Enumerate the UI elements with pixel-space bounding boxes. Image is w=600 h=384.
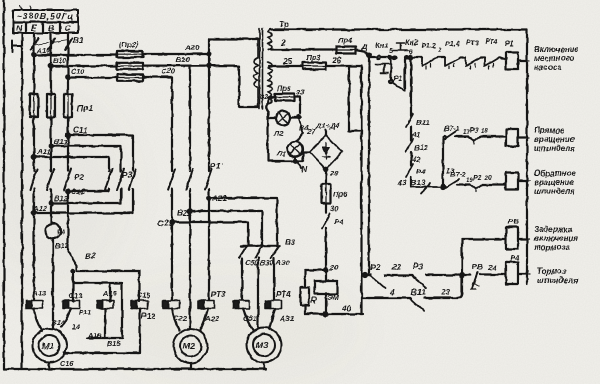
wire P3 out to B12 (51, 189, 121, 203)
fuse Pr2 phase A (117, 51, 143, 58)
wire coil P2 to rail (518, 136, 527, 138)
wire C51 into M3 (243, 309, 253, 331)
fuse Pr5 (275, 94, 294, 101)
bus A from wire 26 (360, 66, 362, 314)
wire 40 (305, 313, 363, 315)
svg-text:С20: С20 (161, 67, 176, 76)
wire lower branch 4 (362, 297, 412, 299)
wire A30 drop (273, 258, 275, 300)
node B12 (49, 201, 53, 205)
node at 73,271 (71, 269, 74, 272)
svg-text:В15: В15 (107, 339, 121, 348)
svg-text:В12: В12 (55, 241, 70, 250)
motor M1 (33, 329, 67, 363)
svg-text:В11: В11 (411, 288, 426, 297)
svg-text:Р3: Р3 (413, 262, 423, 271)
contact PB timed (462, 272, 497, 289)
wire phase C mid (67, 117, 69, 250)
wire A15 stub (104, 309, 106, 339)
fuse Pr6 (322, 184, 331, 203)
contact P1.4 NC (445, 58, 461, 70)
wire P3 out to C12 (68, 189, 109, 191)
svg-text:А11: А11 (36, 147, 50, 156)
svg-text:РА: РА (57, 230, 65, 236)
node B11 (49, 144, 53, 148)
svg-text:41: 41 (411, 130, 420, 139)
fuse Pr3 (303, 63, 326, 70)
contact P3 NO chevron 17-18 (468, 137, 480, 145)
ammeter PA (46, 224, 61, 239)
svg-text:А10: А10 (36, 46, 50, 55)
wire secondary1 top to right rail (270, 28, 527, 30)
switch B2 (68, 251, 77, 266)
svg-text:местного: местного (534, 54, 575, 63)
border frame left (3, 0, 5, 369)
svg-text:С15: С15 (137, 291, 151, 300)
wire 42 (410, 152, 412, 165)
svg-text:А12: А12 (32, 204, 48, 213)
svg-text:23: 23 (440, 288, 451, 297)
contactor P2 contact A (30, 169, 37, 190)
contact P4 NC (406, 164, 413, 177)
contact P2 NO (371, 276, 385, 288)
fuse Pr2 phase B (117, 63, 143, 70)
wire B2 run (77, 266, 139, 271)
contact P3 NO (412, 276, 426, 288)
svg-text:С21: С21 (158, 219, 173, 228)
node B20 (207, 64, 211, 68)
svg-text:М3: М3 (256, 340, 268, 350)
motor M3 (247, 328, 282, 363)
svg-text:Р12: Р12 (141, 312, 156, 321)
resistor R (301, 287, 310, 305)
svg-text:Р2: Р2 (74, 173, 84, 182)
wire A13 into M1 (34, 309, 42, 332)
wire A31 into M3 (269, 309, 275, 330)
wire C50 drop (241, 258, 243, 300)
contact P2 NO chevron 19-20 (470, 185, 482, 193)
wire phase B top (50, 33, 52, 94)
node A20 (207, 52, 211, 56)
wire seg (481, 56, 485, 58)
rectifier bridge D1-D4 (310, 135, 342, 169)
wire 25 (269, 65, 303, 67)
button Kn2 NO (393, 43, 408, 59)
contact C15 / RT2 (131, 301, 148, 309)
svg-text:Пр1: Пр1 (77, 103, 93, 113)
wire node 13 up (442, 139, 444, 187)
contact B7-1 (443, 131, 468, 140)
svg-text:Р1.2: Р1.2 (421, 41, 436, 50)
wire 26 jog to bridge (349, 66, 362, 131)
svg-text:С16: С16 (60, 359, 74, 368)
wire seg (438, 56, 445, 58)
wire column A to M2 (208, 54, 210, 300)
wire L2 stubs (269, 117, 299, 119)
svg-text:Л2: Л2 (273, 129, 284, 138)
svg-text:В2: В2 (85, 252, 96, 261)
wire A20 (143, 53, 209, 55)
svg-text:Р3: Р3 (470, 125, 479, 134)
wire C20 (143, 76, 172, 78)
bus from node 6 down (410, 59, 412, 116)
svg-text:С22: С22 (173, 314, 188, 323)
svg-text:(Пр2): (Пр2) (119, 40, 139, 49)
svg-text:А20: А20 (184, 43, 200, 52)
svg-text:С11: С11 (73, 126, 88, 135)
svg-text:вращение: вращение (534, 178, 575, 187)
wire B20 (143, 64, 209, 66)
node C12 (66, 189, 70, 193)
wire transformer primary top (209, 39, 259, 54)
wire branch box M1 (73, 271, 122, 338)
fuse Pr4 (336, 47, 356, 54)
svg-text:В21: В21 (177, 209, 192, 218)
contact A13 (26, 301, 43, 309)
contact A22 / RT3 (198, 301, 215, 309)
wire to coil P3 (482, 183, 506, 185)
node A12 (32, 211, 36, 215)
wire M2 to neutral (189, 363, 191, 369)
button Kn1 NC (376, 56, 392, 73)
switch B1 (31, 38, 72, 50)
node C11 (66, 133, 70, 137)
svg-text:22: 22 (391, 263, 402, 272)
svg-text:А31: А31 (279, 314, 294, 323)
wire bridge top stub (325, 130, 327, 135)
wire 2 (270, 48, 336, 50)
wire to coil P1 (499, 58, 506, 61)
svg-text:40: 40 (341, 304, 352, 313)
svg-text:С: С (65, 23, 72, 33)
scan smudges (0, 90, 360, 384)
svg-text:насоса: насоса (534, 63, 562, 72)
wire column B to M2 (189, 66, 191, 329)
contactor P3 contact 2 (117, 169, 124, 190)
svg-text:Р1: Р1 (505, 39, 514, 48)
svg-text:27: 27 (306, 127, 316, 136)
svg-text:М2: М2 (183, 341, 195, 351)
svg-text:В14: В14 (51, 318, 64, 327)
wire 22 (385, 274, 412, 276)
svg-text:РТ4: РТ4 (485, 37, 498, 46)
wire 33 drop (294, 97, 300, 113)
wire phase B mid (50, 117, 52, 224)
contact B11 NO lower (411, 299, 424, 311)
wire seg (461, 56, 466, 58)
contact B12 NC (406, 139, 413, 152)
svg-text:В13: В13 (411, 178, 426, 187)
wire to coil P2 (480, 135, 506, 137)
svg-text:А16: А16 (87, 331, 102, 340)
svg-text:30: 30 (330, 204, 339, 213)
svg-text:Задержка: Задержка (534, 225, 573, 234)
fuse Pr1 phase B (47, 94, 55, 117)
coil P4 brake (506, 262, 518, 284)
wire to node 24 (426, 274, 462, 276)
svg-text:А22: А22 (204, 314, 220, 323)
contactor P1 contact B (186, 169, 193, 190)
wire coil P3 to rail (518, 180, 527, 182)
contact C22 / RT3 (163, 301, 180, 309)
svg-text:Р3): Р3) (122, 171, 135, 180)
node C21 (170, 220, 174, 224)
lamp L2 (276, 111, 290, 125)
switch B4 (299, 119, 303, 133)
wire R bottom (304, 305, 306, 314)
node N (293, 159, 297, 163)
svg-text:Д: Д (361, 42, 368, 51)
contact P1.2 NC (422, 58, 438, 70)
coil P2 (506, 129, 518, 146)
coil PB time relay (506, 227, 518, 249)
svg-text:РТ3: РТ3 (466, 38, 479, 47)
svg-text:РТ4: РТ4 (276, 290, 291, 299)
input terminal box 380V 50Hz (13, 6, 78, 33)
wire C13 into M1 (61, 309, 71, 328)
svg-text:В1: В1 (73, 36, 84, 45)
svg-text:14: 14 (72, 322, 80, 331)
node B21 (188, 209, 192, 213)
contact A31 / RT4 (265, 301, 282, 309)
svg-text:С51: С51 (243, 314, 257, 323)
svg-text:В: В (48, 23, 54, 33)
switch B3 bar (241, 245, 279, 247)
fuse Pr1 phase C (64, 94, 72, 117)
svg-text:С10: С10 (71, 67, 84, 76)
svg-text:С50: С50 (245, 258, 258, 267)
wire coil PB left (462, 239, 506, 275)
svg-text:26: 26 (331, 55, 342, 65)
wire 41 (410, 127, 412, 140)
svg-text:В30: В30 (260, 258, 273, 267)
svg-text:С12: С12 (71, 187, 86, 196)
node A21 (207, 196, 211, 200)
wire A22 into M2 (200, 309, 208, 331)
coil P1 (506, 52, 518, 69)
svg-text:18: 18 (481, 129, 488, 135)
svg-text:28: 28 (329, 169, 339, 178)
svg-text:С13: С13 (69, 291, 82, 300)
motor M2 (174, 329, 208, 363)
node B10 (49, 64, 53, 68)
wire B4 to L1 (297, 133, 303, 142)
svg-text:тормоза: тормоза (534, 243, 571, 252)
svg-text:М1: М1 (42, 341, 54, 351)
wire P3 out to A12 (34, 189, 133, 213)
node 20 (324, 268, 328, 272)
contact B11 NC (406, 114, 413, 127)
bus B from node D (368, 55, 370, 275)
svg-text:Р1.4: Р1.4 (445, 39, 460, 48)
wire 6 (406, 56, 422, 58)
svg-text:Кн2: Кн2 (405, 38, 419, 47)
wire C15 to motor M1 (64, 309, 140, 354)
node 6 (409, 56, 413, 60)
wire coil PB to rail (518, 238, 527, 240)
svg-text:42: 42 (411, 155, 421, 164)
wire to node 20 (325, 228, 327, 270)
transformer secondary winding 1 (268, 30, 272, 51)
svg-text:Обратное: Обратное (534, 169, 576, 178)
svg-text:2: 2 (280, 38, 286, 48)
svg-text:В12: В12 (414, 143, 429, 152)
wire bridge left vertex to N rail (303, 152, 310, 161)
svg-text:шпинделя: шпинделя (534, 144, 575, 153)
svg-text:А15: А15 (102, 289, 117, 298)
transformer Tr core (260, 28, 263, 109)
wire coil P1 to rail (518, 59, 527, 61)
contactor P3 contact 3 (129, 169, 136, 190)
contact P1 self-hold (390, 59, 406, 90)
svg-text:шпинделя: шпинделя (534, 187, 575, 196)
wire N (21, 33, 23, 369)
wire C21 to B3 (172, 222, 248, 246)
svg-text:Р11: Р11 (79, 308, 91, 317)
wire 30 (325, 203, 327, 213)
contact A15 (97, 301, 114, 309)
svg-text:Л1: Л1 (276, 149, 286, 158)
fuse Pr2 phase C (117, 74, 143, 81)
contact C51 / RT4 (233, 301, 250, 309)
svg-text:Тормоз: Тормоз (537, 267, 566, 276)
svg-text:Р1ʾ: Р1ʾ (210, 161, 224, 171)
node 40 (324, 312, 328, 316)
svg-text:Р4: Р4 (334, 217, 344, 226)
wire L1 bottom (294, 157, 296, 162)
wire B21 to B3 (190, 211, 262, 246)
transformer Tr primary winding (254, 39, 258, 107)
contactor P2 contact B (47, 169, 54, 190)
svg-text:Прямое: Прямое (534, 126, 565, 135)
wire bottom neutral bus (4, 368, 266, 370)
svg-text:А21: А21 (211, 194, 227, 203)
svg-text:N: N (16, 23, 23, 33)
svg-text:Пр6: Пр6 (333, 190, 348, 199)
svg-text:N: N (301, 164, 308, 174)
wire M1 to neutral (48, 363, 50, 370)
svg-text:вращение: вращение (534, 135, 575, 144)
wire control top (369, 56, 377, 58)
coil P3 (506, 173, 518, 190)
svg-text:Р4: Р4 (510, 253, 520, 262)
node 24 junction (460, 273, 464, 277)
wire B10 to fuse (51, 65, 117, 67)
wire A10 to fuse (34, 54, 117, 56)
wire M3 to neutral (263, 363, 265, 370)
svg-text:2: 2 (437, 48, 442, 54)
svg-text:А30: А30 (275, 258, 289, 267)
wire coil P4 to rail (518, 273, 527, 275)
wire B into M1 (52, 322, 54, 328)
contact RT4 NC (485, 58, 499, 70)
svg-text:20: 20 (484, 176, 492, 182)
svg-text:В11: В11 (54, 137, 67, 146)
contact C13 / RT1 (63, 301, 80, 309)
svg-text:РТ3: РТ3 (211, 290, 226, 299)
svg-text:Е: Е (31, 23, 37, 33)
svg-text:В3: В3 (285, 238, 296, 247)
wire 32 drop (266, 104, 268, 112)
wire branch from bus (369, 274, 371, 276)
wire 23 (424, 277, 462, 298)
svg-text:ЭМ: ЭМ (327, 293, 339, 302)
wire B30 drop (257, 258, 259, 328)
svg-text:4: 4 (389, 288, 395, 297)
svg-text:Включение: Включение (534, 45, 579, 54)
svg-text:Д1÷Д4: Д1÷Д4 (315, 121, 340, 130)
wire C22 into M2 (172, 309, 179, 331)
svg-text:32: 32 (260, 92, 269, 101)
wire 28 to fuse Pr6 (325, 169, 327, 184)
svg-text:РВ: РВ (508, 217, 519, 226)
contact B13 (411, 183, 441, 193)
svg-text:В20: В20 (176, 55, 191, 64)
svg-text:24: 24 (487, 263, 497, 272)
svg-text:В11: В11 (416, 118, 429, 127)
svg-text:43: 43 (397, 178, 407, 187)
node A11 (32, 155, 36, 159)
fuse Pr1 phase A (30, 94, 38, 117)
wire 43 (410, 177, 412, 187)
svg-text:Р1: Р1 (393, 74, 402, 83)
svg-text:Р2: Р2 (370, 263, 380, 272)
wire winding3 to Pr5 (268, 97, 275, 104)
node A10 (32, 53, 36, 57)
switch B3 blades (239, 247, 278, 258)
wire coil P4 left (497, 273, 506, 275)
wire C10 to fuse (68, 76, 117, 78)
svg-text:В10: В10 (53, 56, 66, 65)
ground tap symbol (12, 40, 22, 52)
wire fuse Pr4 to node D (356, 50, 369, 55)
contact B7-2 (443, 180, 470, 188)
wire column C to M2 (171, 77, 173, 300)
node C10 (66, 76, 70, 80)
wire C11 to P3 (68, 135, 133, 171)
electromagnet EM (315, 270, 338, 314)
svg-text:Кн1: Кн1 (375, 41, 388, 50)
svg-text:Р4: Р4 (416, 167, 426, 176)
wire phase A mid (33, 117, 35, 300)
svg-text:В12: В12 (54, 194, 69, 203)
svg-text:А13: А13 (32, 289, 46, 298)
transformer secondary winding 3 (268, 86, 272, 104)
wire B below PA (52, 239, 54, 323)
symbol N drop (297, 162, 301, 168)
wire transformer primary bottom (209, 66, 258, 107)
node 13 (441, 185, 445, 189)
svg-text:шпинделя: шпинделя (537, 276, 578, 285)
svg-text:Пр5: Пр5 (277, 84, 292, 93)
contactor P1 contact C (168, 169, 175, 190)
svg-text:Р2: Р2 (473, 173, 482, 182)
svg-text:В7-1: В7-1 (444, 124, 460, 133)
wire lamp left rail (268, 112, 303, 161)
node D (367, 53, 371, 57)
svg-text:R: R (311, 296, 317, 305)
right rail (526, 30, 528, 285)
lamp L1 (288, 142, 303, 157)
node 33-B4 (297, 115, 300, 118)
rail ticks (525, 61, 530, 275)
svg-text:Тр: Тр (279, 19, 289, 29)
svg-text:~380В,50Гц: ~380В,50Гц (17, 12, 73, 21)
transformer secondary winding 2 (268, 62, 272, 86)
wire 5 (380, 56, 394, 58)
wire B11 to P3 (51, 146, 121, 171)
contactor P1 contact A (205, 169, 212, 190)
